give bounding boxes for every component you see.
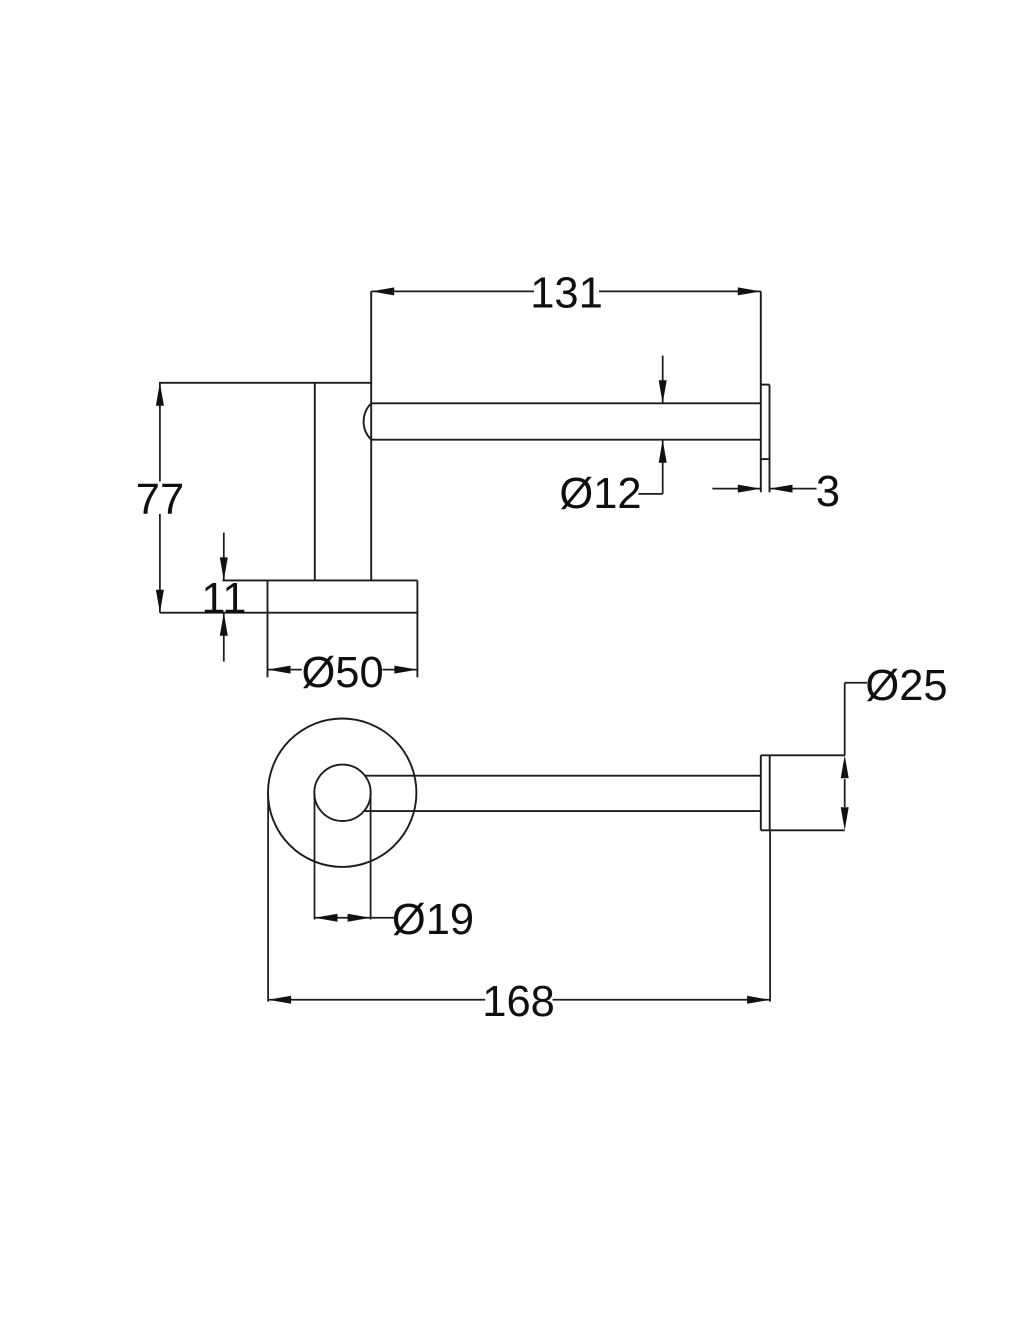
dimension line diameter 50 <box>268 669 302 671</box>
dimension 168 right extension line <box>769 830 771 1001</box>
svg-text:Ø50: Ø50 <box>301 649 383 697</box>
dimension 3 left line <box>712 488 760 490</box>
arrowhead diameter 12 top <box>659 380 667 403</box>
dimension line 168 <box>268 999 485 1001</box>
end disc top edge (side view) <box>761 384 770 386</box>
arrowhead diameter 50 right <box>394 666 417 674</box>
end disc right edge with 3 extension <box>769 385 771 493</box>
svg-text:Ø25: Ø25 <box>865 662 947 710</box>
arrowhead 168 right <box>747 996 770 1004</box>
dimension 168 left extension line <box>267 793 269 1002</box>
dimension 11 lower leader <box>223 613 225 662</box>
svg-text:Ø12: Ø12 <box>559 470 641 518</box>
wall flange top edge with 11 extension <box>223 579 418 581</box>
dimension diameter 19 extension lines <box>314 793 316 920</box>
arrowhead 11 bottom <box>220 613 228 636</box>
end disc face line (plan view) <box>769 755 771 830</box>
arrowhead 11 top <box>220 557 228 580</box>
dimension 11 upper leader <box>223 533 225 581</box>
rod bottom edge (side view) <box>371 439 761 441</box>
dimension diameter 12 lower leader <box>638 440 662 494</box>
arrowhead diameter 19 left <box>315 914 338 922</box>
wall flange right edge with diameter-50 extension <box>416 580 418 677</box>
end disc left edge with 131 and 3 extensions <box>760 291 762 492</box>
end disc outline (plan view) <box>761 755 845 830</box>
dimension diameter 25 line and leader <box>845 683 867 807</box>
rod top edge (side view) <box>371 402 761 404</box>
arrowhead diameter 12 bottom <box>659 440 667 463</box>
dimension line diameter 19 with leader <box>315 917 395 919</box>
rod bottom edge (plan view) <box>365 810 761 812</box>
arrowhead 168 left <box>268 996 291 1004</box>
arrowhead diameter 25 bottom <box>841 807 849 830</box>
arrowhead diameter 25 top <box>841 755 849 778</box>
dimension 3 right line <box>770 488 817 490</box>
dimension line 77 <box>159 383 161 482</box>
dimension diameter 12 upper leader <box>662 356 664 404</box>
rod top edge (plan view) <box>365 775 761 777</box>
svg-text:168: 168 <box>482 978 555 1026</box>
arrowhead 131 right <box>738 287 761 295</box>
post circle diameter 19 (plan view) <box>314 765 370 821</box>
svg-text:11: 11 <box>201 575 246 623</box>
arrowhead 3 right <box>770 485 793 493</box>
svg-text:Ø19: Ø19 <box>392 896 474 944</box>
arrowhead 77 bottom <box>156 590 164 613</box>
end disc bottom edge (side view) <box>761 458 770 460</box>
wall flange left edge with diameter-50 extension <box>267 580 269 677</box>
arrowhead 131 left <box>371 287 394 295</box>
post right edge with 131 left extension line <box>370 291 372 580</box>
rod end intersection arc <box>364 403 372 439</box>
arrowhead 3 left <box>738 485 761 493</box>
flange circle diameter 50 (plan view) <box>268 719 416 867</box>
svg-text:131: 131 <box>530 270 603 318</box>
wall flange bottom edge with 77/11 extension <box>160 612 418 614</box>
post top edge with 77 extension line <box>159 382 371 384</box>
dimension line 131 <box>371 290 534 292</box>
arrowhead 77 top <box>156 383 164 406</box>
post left edge (side view) <box>314 383 316 581</box>
svg-text:77: 77 <box>136 476 184 524</box>
arrowhead diameter 19 right <box>348 914 371 922</box>
arrowhead diameter 50 left <box>268 666 291 674</box>
svg-text:3: 3 <box>816 468 840 516</box>
